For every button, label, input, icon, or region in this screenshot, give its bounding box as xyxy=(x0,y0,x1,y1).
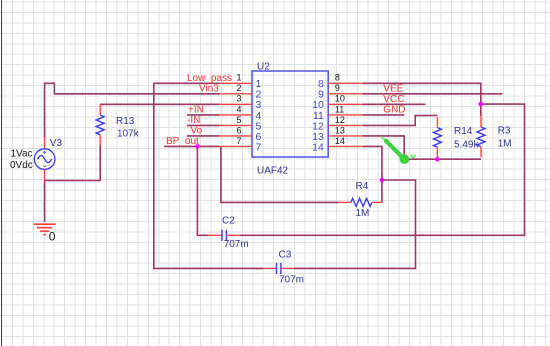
pin 8 stub xyxy=(328,82,362,84)
resistor R3 xyxy=(477,116,485,157)
pin 11 stub xyxy=(328,114,362,116)
wire bottom Low_pass to C3 right continuing xyxy=(294,180,416,268)
svg-text:C3: C3 xyxy=(279,250,292,261)
svg-text:14: 14 xyxy=(335,136,345,146)
svg-text:12: 12 xyxy=(335,115,345,125)
wire pin3 row from R13 xyxy=(100,103,219,105)
svg-text:1: 1 xyxy=(236,73,241,83)
svg-text:10: 10 xyxy=(335,94,345,104)
wire +IN stub xyxy=(187,114,220,116)
pin 10 stub xyxy=(328,103,362,105)
svg-text:7: 7 xyxy=(256,141,262,153)
svg-text:R13: R13 xyxy=(116,116,135,127)
svg-text:V3: V3 xyxy=(50,138,63,149)
svg-text:9: 9 xyxy=(335,83,340,93)
wire Vo stub xyxy=(187,135,220,137)
svg-text:-IN: -IN xyxy=(187,115,200,126)
wire V3 top to Vin3 jog xyxy=(45,83,220,137)
svg-text:7: 7 xyxy=(236,136,241,146)
op-amp U2 body xyxy=(252,71,328,157)
wire GND stub xyxy=(363,114,405,116)
svg-text:4: 4 xyxy=(236,104,241,114)
svg-text:Vo: Vo xyxy=(191,126,203,137)
wire VCC stub xyxy=(363,103,426,105)
wire VEE stub xyxy=(363,93,503,95)
pin 4 stub xyxy=(220,114,252,116)
wire BP_out row xyxy=(164,145,220,147)
svg-text:13: 13 xyxy=(335,125,345,135)
wire pin8 row xyxy=(363,83,481,116)
wire C2 right to far right riser xyxy=(240,104,525,235)
svg-text:Low_pass: Low_pass xyxy=(187,73,232,84)
pin 9 stub xyxy=(328,93,362,95)
svg-text:GND: GND xyxy=(383,105,405,116)
pin 6 stub xyxy=(220,135,252,137)
svg-text:R14: R14 xyxy=(454,126,473,137)
svg-text:0: 0 xyxy=(49,230,56,244)
svg-text:707m: 707m xyxy=(279,274,304,285)
page left border xyxy=(1,0,3,346)
resistor R14 xyxy=(433,117,441,158)
svg-text:R4: R4 xyxy=(356,181,369,192)
svg-text:BP_out: BP_out xyxy=(166,136,199,147)
svg-text:1Vac: 1Vac xyxy=(11,149,33,160)
pin 2 stub xyxy=(220,93,252,95)
wire Low_pass pin1 xyxy=(154,83,264,268)
wire pin14 down to R4 node xyxy=(363,146,382,202)
svg-text:C2: C2 xyxy=(222,215,235,226)
svg-text:VCC: VCC xyxy=(383,94,404,105)
pin 14 stub xyxy=(328,145,362,147)
pin 12 stub xyxy=(328,124,362,126)
svg-text:3: 3 xyxy=(236,94,241,104)
svg-text:1M: 1M xyxy=(356,208,370,219)
svg-text:8: 8 xyxy=(335,73,340,83)
svg-text:0Vdc: 0Vdc xyxy=(10,160,33,171)
wire probe row to R3 bottom xyxy=(404,158,481,160)
pin 13 stub xyxy=(328,135,362,137)
svg-text:11: 11 xyxy=(335,104,344,114)
ground 0 xyxy=(34,224,56,235)
svg-text:+IN: +IN xyxy=(188,105,204,116)
capacitor C3 xyxy=(263,263,294,274)
wire pin12 to R14 top xyxy=(363,116,438,126)
svg-text:707m: 707m xyxy=(224,239,249,250)
svg-text:5: 5 xyxy=(236,115,241,125)
pin 1 stub xyxy=(220,82,252,84)
svg-text:14: 14 xyxy=(312,141,324,153)
wire R4 left to BP riser xyxy=(221,146,338,202)
junction at 381.9,180 xyxy=(380,178,385,183)
voltage probe marker xyxy=(382,137,416,164)
svg-text:U2: U2 xyxy=(257,61,270,72)
pin 7 stub xyxy=(220,145,252,147)
wire -IN stub xyxy=(187,124,220,126)
wire V3 bottom node xyxy=(45,145,101,222)
junction at 197.4,146.4 xyxy=(195,144,200,149)
wire pin13 to probe node row xyxy=(363,136,405,159)
voltage source V3 xyxy=(34,137,55,180)
svg-text:1M: 1M xyxy=(498,139,512,150)
capacitor C2 xyxy=(209,230,240,241)
junction at 437.4,159.2 xyxy=(435,157,440,162)
svg-text:Vin3: Vin3 xyxy=(199,83,219,94)
svg-text:VEE: VEE xyxy=(383,83,403,94)
svg-text:6: 6 xyxy=(236,125,241,135)
pin 5 stub xyxy=(220,124,252,126)
junction at 480.8,104.1 xyxy=(479,102,484,107)
resistor R13 xyxy=(96,104,104,145)
svg-text:107k: 107k xyxy=(117,129,140,140)
svg-text:UAF42: UAF42 xyxy=(257,166,289,177)
wire BP junction down to C2 xyxy=(197,146,208,235)
resistor R4 xyxy=(338,198,382,206)
svg-text:2: 2 xyxy=(236,83,241,93)
svg-text:R3: R3 xyxy=(498,126,511,137)
pin 3 stub xyxy=(220,103,252,105)
